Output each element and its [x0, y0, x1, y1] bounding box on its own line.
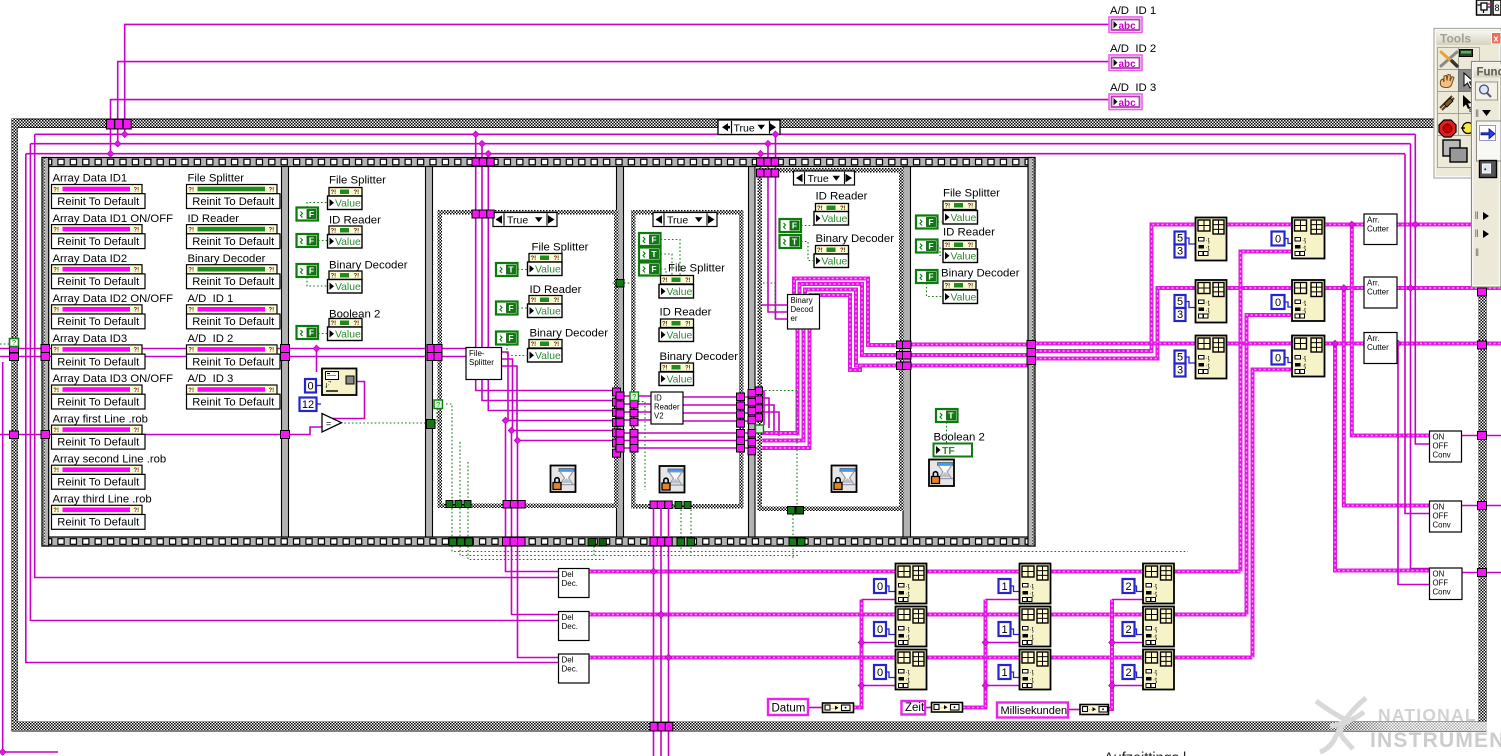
- svg-text:Array Data ID2 ON/OFF: Array Data ID2 ON/OFF: [53, 293, 174, 305]
- svg-text:?!: ?!: [53, 348, 59, 354]
- svg-text:?!: ?!: [554, 342, 560, 348]
- boolean constant T case3: [496, 263, 518, 276]
- Tools palette cells: [1438, 48, 1459, 70]
- svg-text:Cutter: Cutter: [1367, 288, 1389, 297]
- case structure 4 border: [631, 210, 744, 215]
- array build node col2 row2: [1020, 607, 1051, 647]
- NI eagle watermark: [1316, 698, 1366, 752]
- array build node col2 row1: [1020, 564, 1051, 604]
- svg-text:Value: Value: [951, 213, 977, 224]
- wire panel6 thick run 3: [904, 364, 1029, 368]
- wait hourglass case5: [832, 466, 857, 493]
- Zeit label: [902, 701, 926, 715]
- numeric constant 3 row3: [1175, 364, 1186, 377]
- wire case3-case4 crossing bundle: [621, 395, 652, 397]
- svg-text:Del: Del: [562, 570, 574, 579]
- green wire case3 interior drop: [446, 404, 452, 501]
- svg-text:?!: ?!: [53, 468, 59, 474]
- watermark fade over border: [0, 0, 1, 1]
- svg-text:Aufzeittings l: Aufzeittings l: [1104, 751, 1186, 756]
- svg-text:‖: ‖: [1475, 211, 1479, 222]
- svg-text:Value: Value: [535, 264, 561, 275]
- svg-text:INSTRUMENTS: INSTRUMENTS: [1370, 729, 1501, 752]
- svg-text:0: 0: [877, 667, 883, 679]
- svg-text:F: F: [309, 266, 314, 276]
- svg-text:A/D ID 3: A/D ID 3: [1110, 82, 1156, 94]
- wire H3 drop to ON OFF 2 second input: [1405, 154, 1430, 514]
- svg-text:3: 3: [1177, 246, 1183, 258]
- svg-text:·ƫ: ·ƫ: [1153, 626, 1157, 633]
- wire time node riser col2 (thick): [963, 600, 986, 708]
- svg-text:?!: ?!: [134, 308, 140, 314]
- wire riser bottom row1 to index1 (thick): [1241, 252, 1293, 572]
- boolean constant F 2 panel2: [297, 234, 319, 247]
- sequence left border tunnels: [41, 345, 50, 353]
- wire File-Splitter outputs to case3 tunnels: [502, 352, 613, 421]
- svg-text:?!: ?!: [134, 468, 140, 474]
- numeric constants bottom grid: [874, 579, 886, 593]
- svg-text:Reader: Reader: [654, 403, 680, 412]
- ID Reader V2 subVI: [651, 392, 683, 424]
- wire subset1 to index1 (thick): [1227, 223, 1293, 227]
- wire panel2 pair to panel3: [289, 348, 466, 350]
- svg-text:Binary Decoder: Binary Decoder: [530, 327, 609, 339]
- boolean constant T case5: [780, 235, 802, 248]
- svg-text:Reinit To Default: Reinit To Default: [57, 477, 140, 489]
- svg-text:NATIONAL: NATIONAL: [1378, 705, 1477, 725]
- svg-text:Array Data ID1: Array Data ID1: [53, 173, 128, 185]
- wire panel6 thick run 2: [904, 353, 1029, 357]
- boolean constant F panel6 a: [916, 216, 938, 229]
- svg-text:A/D ID 2: A/D ID 2: [1110, 43, 1156, 55]
- sequence panel divider 1: [282, 167, 289, 538]
- Arr Cutter subVI 3: [1364, 333, 1397, 364]
- wire case5 loop 4 (thick): [811, 295, 861, 370]
- svg-text:·ƫ: ·ƫ: [906, 626, 910, 633]
- svg-text:Array Data ID3 ON/OFF: Array Data ID3 ON/OFF: [53, 373, 174, 385]
- green dotted row 3 below sequence: [468, 546, 604, 560]
- Tools close button: [1492, 33, 1501, 45]
- case4 right lower tunnels: [737, 430, 745, 438]
- svg-text:Reinit To Default: Reinit To Default: [192, 276, 275, 288]
- numeric constant 3 row1: [1175, 245, 1186, 258]
- wire panel2 junction drop to build node: [316, 349, 318, 373]
- wait hourglass panel6: [929, 460, 954, 487]
- svg-text:Reinit To Default: Reinit To Default: [57, 396, 140, 408]
- wire case3 drops to Del Dec row1: [506, 421, 560, 572]
- Functions palette title: [1474, 65, 1501, 78]
- svg-text:?!: ?!: [53, 508, 59, 514]
- svg-text:Array second Line .rob: Array second Line .rob: [53, 453, 167, 465]
- svg-text:·ƫ: ·ƫ: [1302, 300, 1306, 307]
- wire into loop y356: [0, 356, 289, 358]
- numeric constant 3 row2: [1175, 308, 1186, 321]
- case5 right tunnels: [897, 341, 905, 349]
- svg-text:F: F: [651, 235, 656, 245]
- svg-text:Arr.: Arr.: [1367, 334, 1379, 343]
- wire into loop y434: [0, 434, 282, 436]
- boolean constant F panel6 c: [916, 270, 938, 283]
- svg-text:Binary Decoder: Binary Decoder: [329, 260, 408, 272]
- svg-text:Value: Value: [951, 292, 977, 303]
- wire build-node loop to equals: [322, 382, 365, 419]
- wire tunnel stub 2: [117, 126, 119, 144]
- A/D ID 2 string indicator: [1109, 55, 1142, 71]
- wire row3 drop to ON OFF 3 second input: [1398, 344, 1430, 585]
- svg-text:?!: ?!: [53, 308, 59, 314]
- svg-text:Value: Value: [535, 351, 561, 362]
- svg-text:‖: ‖: [1475, 229, 1479, 240]
- green wire equals output: [341, 422, 427, 424]
- wire left drop to Del Dec 1: [35, 134, 559, 577]
- Millisekunden label: [997, 703, 1068, 718]
- svg-text:?!: ?!: [945, 284, 951, 290]
- wire H1 drop to ON OFF 1 second input: [1415, 134, 1429, 444]
- svg-text:0: 0: [1275, 234, 1281, 246]
- flat sequence frame left border: [42, 158, 49, 547]
- wire Arr Cutter 3 out: [1397, 342, 1501, 346]
- hand tool icon: [1440, 75, 1454, 88]
- svg-text:Value: Value: [822, 256, 848, 267]
- sequence panel divider 4: [749, 167, 756, 538]
- svg-text:·ƫ: ·ƫ: [906, 669, 910, 676]
- svg-text:·ƫ: ·ƫ: [1153, 669, 1157, 676]
- tunnel outer left y434: [10, 431, 19, 439]
- array build node col2 row3: [1020, 650, 1051, 690]
- wire panel5 left tunnel stubs: [758, 391, 765, 425]
- selected cell highlight: [1459, 70, 1480, 92]
- svg-text:·ƫ: ·ƫ: [1153, 591, 1157, 598]
- wire index3 to Arr Cutter 3 (thick): [1325, 342, 1365, 346]
- ON OFF Conv subVI 2: [1430, 501, 1462, 532]
- svg-text:Reinit To Default: Reinit To Default: [192, 316, 275, 328]
- wire Del Dec row2 output (thick): [589, 613, 1247, 617]
- wire ON OFF 3 output: [1462, 572, 1501, 574]
- svg-text:Binary Decoder: Binary Decoder: [660, 351, 739, 363]
- wire panel6 thick run 1: [904, 343, 1029, 347]
- svg-text:Reinit To Default: Reinit To Default: [192, 356, 275, 368]
- case structure 5 border: [758, 168, 904, 173]
- svg-text:A/D ID 2: A/D ID 2: [188, 333, 234, 345]
- svg-text:Reinit To Default: Reinit To Default: [57, 437, 140, 449]
- svg-text:Value: Value: [667, 374, 693, 385]
- svg-text:Array third Line .rob: Array third Line .rob: [53, 494, 152, 506]
- green wire into loop: [0, 343, 10, 345]
- numeric constant 0 panel2: [305, 379, 316, 393]
- wire date node riser col1 (thick): [854, 600, 862, 708]
- wire seq-out row2 riser to Array Subset 2 (thick): [1035, 288, 1196, 359]
- d4 tunnels: [748, 390, 756, 398]
- svg-text:5: 5: [1177, 352, 1183, 364]
- svg-text:Conv: Conv: [1433, 521, 1451, 530]
- svg-text:3: 3: [1177, 365, 1183, 377]
- green equals comparison feed: [763, 283, 775, 320]
- svg-text:?!: ?!: [269, 308, 275, 314]
- numeric constant 5 row2: [1175, 295, 1186, 308]
- wire case3 bundle drop 2: [482, 144, 613, 401]
- svg-text:·ƫ: ·ƫ: [1030, 677, 1034, 684]
- wire col2 stubs: [986, 599, 1020, 601]
- svg-text:T: T: [948, 411, 954, 421]
- wire exit drop 1 through bottom border: [653, 546, 655, 756]
- svg-text:Value: Value: [822, 214, 848, 225]
- green risers mid: [593, 546, 595, 556]
- svg-text:?!: ?!: [269, 348, 275, 354]
- svg-text:Value: Value: [335, 282, 361, 293]
- sequence bottom band tunnels (panel4): [650, 538, 657, 546]
- boolean constant F case3 c: [496, 332, 518, 345]
- svg-text:?!: ?!: [662, 278, 668, 284]
- A/D ID 3 string indicator: [1109, 94, 1142, 110]
- wire case5 loop 2 (thick): [800, 284, 898, 355]
- svg-text:Binary Decoder: Binary Decoder: [188, 253, 266, 265]
- array build node col3 row2: [1143, 607, 1174, 647]
- flat sequence frame top band: [42, 158, 1035, 167]
- svg-text:Zeit: Zeit: [905, 702, 925, 714]
- case4 selector terminal: [630, 392, 639, 401]
- wire riser bottom row3 to index3 (thick): [1253, 370, 1293, 658]
- svg-text:1: 1: [1001, 667, 1007, 679]
- sequence bottom band tunnels (panel3): [449, 538, 457, 546]
- svg-text:A/D ID 1: A/D ID 1: [1110, 5, 1156, 17]
- case structure 3 border: [438, 210, 619, 215]
- case structure 3 selector: [493, 213, 557, 227]
- svg-text:Binary: Binary: [791, 296, 813, 305]
- svg-text:abc: abc: [1119, 21, 1137, 32]
- wrench and screwdriver tool icon: [1441, 52, 1457, 66]
- green dotted row 2 below sequence: [460, 546, 800, 556]
- svg-text:ID: ID: [654, 394, 662, 403]
- date conversion node: [823, 703, 854, 713]
- wire into loop y348: [0, 348, 289, 350]
- d3 green tunnel: [616, 280, 624, 288]
- svg-text:?!: ?!: [188, 388, 194, 394]
- wire panel2 equals lower input: [289, 427, 322, 435]
- svg-text:2: 2: [1125, 581, 1131, 593]
- svg-text:ID Reader: ID Reader: [329, 215, 381, 227]
- svg-text:True: True: [734, 122, 755, 134]
- Array Subset node 2: [1196, 280, 1227, 323]
- wire ID Reader V2 outputs to panel5: [683, 396, 758, 398]
- File-Splitter subVI: [466, 348, 502, 380]
- svg-text:File Splitter: File Splitter: [329, 175, 386, 187]
- svg-text:Reinit To Default: Reinit To Default: [57, 236, 140, 248]
- svg-text:Reinit To Default: Reinit To Default: [192, 396, 275, 408]
- case structure 4 selector: [653, 213, 717, 227]
- boolean constant F 3 panel2: [297, 264, 319, 277]
- svg-text:Array Data ID1 ON/OFF: Array Data ID1 ON/OFF: [53, 213, 174, 225]
- Tools palette window: [1434, 29, 1501, 179]
- svg-text:Decod: Decod: [791, 305, 814, 314]
- color copy tool icon: [1443, 140, 1460, 156]
- svg-text:A/D ID 3: A/D ID 3: [188, 373, 234, 385]
- sequence right border tunnels: [1027, 341, 1036, 349]
- wire case5 loop 1 (thick): [794, 279, 898, 346]
- Del Dec subVI 3: [559, 654, 590, 683]
- svg-text:V2: V2: [654, 412, 664, 421]
- svg-text:abc: abc: [1119, 59, 1137, 70]
- svg-text:F: F: [651, 264, 656, 274]
- svg-text:T: T: [508, 265, 514, 275]
- wire Arr Cutter 1 out: [1397, 223, 1474, 227]
- case3 selector terminal: [434, 400, 443, 409]
- divider2 green tunnel: [427, 420, 436, 429]
- svg-text:·ƫ: ·ƫ: [1030, 591, 1034, 598]
- svg-text:Dec.: Dec.: [562, 622, 578, 631]
- svg-text:·ƫ: ·ƫ: [1206, 300, 1210, 307]
- array build node col3 row1: [1143, 564, 1174, 604]
- case5 bottom green tunnel: [788, 507, 796, 515]
- svg-text:Value: Value: [951, 251, 977, 262]
- svg-text:Binary Decoder: Binary Decoder: [816, 233, 895, 245]
- wire case3 drops to Del Dec row2: [512, 431, 560, 615]
- svg-text:Reinit To Default: Reinit To Default: [192, 236, 275, 248]
- wire Arr Cutter 2 out: [1397, 286, 1501, 290]
- case3 bottom magenta tunnels: [503, 501, 510, 509]
- svg-text:ID Reader: ID Reader: [816, 191, 868, 203]
- milliseconds conversion node: [1080, 705, 1109, 715]
- svg-text:F: F: [928, 241, 933, 251]
- svg-text:·ƫ: ·ƫ: [1206, 307, 1210, 314]
- boolean tunnel outer left: [10, 339, 19, 347]
- svg-text:?!: ?!: [685, 322, 691, 328]
- wire subset2 to index2 (thick): [1227, 286, 1293, 290]
- sequence top band tunnels panel5: [757, 158, 764, 166]
- d5 tunnels: [903, 341, 912, 349]
- svg-text:?!: ?!: [968, 284, 974, 290]
- svg-text:Func: Func: [1477, 67, 1501, 79]
- svg-text:?!: ?!: [188, 348, 194, 354]
- svg-text:ID Reader: ID Reader: [188, 213, 240, 225]
- svg-text:0: 0: [1275, 353, 1281, 365]
- svg-text:Arr.: Arr.: [1367, 216, 1379, 225]
- svg-text:A/D ID 1: A/D ID 1: [188, 293, 234, 305]
- time conversion node: [932, 703, 963, 713]
- Array Subset node 3: [1196, 336, 1227, 379]
- wire Binary Decoder subVI bottom drops (thick): [758, 329, 798, 433]
- green wire case3 bottom to band: [451, 508, 453, 538]
- wait hourglass case3: [551, 466, 576, 493]
- svg-text:Del: Del: [562, 613, 574, 622]
- svg-text:ON: ON: [1433, 570, 1445, 579]
- svg-text:·ƫ: ·ƫ: [1030, 626, 1034, 633]
- wire seq-out row3 to Array Subset 3 (thick): [1035, 342, 1196, 346]
- edit text cursor icon: [1463, 95, 1472, 109]
- svg-text:Arr.: Arr.: [1367, 279, 1379, 288]
- case5 top tunnels: [757, 169, 764, 177]
- svg-text:·ƫ: ·ƫ: [1302, 307, 1306, 314]
- toolbar icon fragment 1: [1477, 0, 1492, 15]
- case structure outer border bottom: [12, 722, 1486, 731]
- sequence panel divider 3: [617, 167, 624, 538]
- Index Array node 1: [1292, 218, 1325, 259]
- svg-text:Reinit To Default: Reinit To Default: [57, 276, 140, 288]
- flat sequence frame right border: [1028, 158, 1035, 547]
- sequence bottom band tunnels panel5: [789, 538, 797, 546]
- boolean constant F 4 panel2: [297, 326, 319, 339]
- svg-text:Datum: Datum: [772, 703, 806, 715]
- svg-text:·ƫ: ·ƫ: [1302, 245, 1306, 252]
- wire ON OFF 1 output: [1462, 435, 1501, 437]
- outer right border tunnels: [1478, 288, 1487, 296]
- svg-text:?!: ?!: [134, 227, 140, 233]
- svg-text:··: ··: [940, 706, 944, 712]
- svg-text:ID Reader: ID Reader: [943, 227, 995, 239]
- svg-text:?!: ?!: [269, 187, 275, 193]
- svg-text:12: 12: [302, 399, 314, 411]
- divider1 tunnels: [281, 345, 290, 353]
- svg-text:·ƫ: ·ƫ: [1153, 634, 1157, 641]
- svg-text:?!: ?!: [134, 388, 140, 394]
- A/D ID 1 string indicator: [1109, 17, 1142, 33]
- svg-text:·ƫ: ·ƫ: [1206, 237, 1210, 244]
- wire case3 bundle drop 3: [488, 154, 612, 411]
- numeric constant 0 mid row3: [1272, 351, 1285, 365]
- svg-text:Array first Line .rob: Array first Line .rob: [53, 413, 148, 425]
- case3 right tunnel column: [613, 388, 621, 396]
- svg-text:2: 2: [1125, 667, 1131, 679]
- svg-text:=: =: [326, 419, 331, 429]
- ON OFF Conv subVI 3: [1430, 568, 1463, 600]
- boolean constant T panel6: [936, 409, 958, 422]
- divider2 tunnels: [427, 345, 435, 353]
- Functions subpalette icon blue arrow: [1477, 121, 1501, 161]
- svg-text:·ƫ: ·ƫ: [906, 583, 910, 590]
- svg-text:Reinit To Default: Reinit To Default: [57, 356, 140, 368]
- svg-text:·ƫ: ·ƫ: [1206, 355, 1210, 362]
- svg-text:·ƫ: ·ƫ: [1206, 245, 1210, 252]
- svg-text:File Splitter: File Splitter: [532, 242, 589, 254]
- wire ms node riser col3 (thick): [1109, 600, 1113, 710]
- Functions search button: [1476, 82, 1498, 100]
- tunnels on outer top border: [106, 120, 114, 130]
- numeric constant 0 mid row1: [1272, 232, 1285, 246]
- svg-text:?!: ?!: [53, 187, 59, 193]
- Arr Cutter subVI 2: [1364, 277, 1397, 308]
- wire case3 drops to Del Dec row3: [518, 441, 560, 658]
- svg-text:F: F: [309, 209, 314, 219]
- wire tunnel stub 3: [124, 126, 126, 134]
- array build node col1 row3: [896, 650, 927, 690]
- svg-text:Value: Value: [667, 330, 693, 341]
- wiring tool icon: [1440, 96, 1454, 110]
- wire case5 loop 3 (thick): [805, 290, 898, 366]
- case4 wires down to band: [653, 508, 655, 538]
- svg-text:?: ?: [436, 402, 440, 409]
- svg-text:?!: ?!: [269, 388, 275, 394]
- wire top horizontal run H2: [30, 143, 1410, 145]
- case structure 5 selector: [794, 171, 855, 185]
- wire Del Dec row3 output (thick): [589, 656, 1253, 660]
- svg-text:?!: ?!: [269, 268, 275, 274]
- wire Del Dec row1 output (thick): [589, 570, 1241, 574]
- wire tunnel stub 1: [110, 126, 112, 154]
- green wire panel5 selector dotted: [765, 391, 797, 507]
- wire case5 top feed 2: [768, 144, 788, 312]
- numeric constant 12 panel2: [300, 398, 317, 412]
- wire H2 drop stub: [1411, 144, 1432, 569]
- svg-text:F: F: [792, 221, 797, 231]
- svg-text:?!: ?!: [53, 388, 59, 394]
- wire left drop to Del Dec 2: [30, 144, 559, 621]
- Index Array node 3: [1292, 336, 1325, 377]
- svg-text:?!: ?!: [53, 227, 59, 233]
- d3 tunnels: [616, 392, 624, 400]
- ON OFF Conv subVI 1: [1430, 431, 1462, 462]
- outer bottom border tunnels: [650, 723, 657, 732]
- svg-text:0: 0: [307, 381, 313, 393]
- wire top horizontal run H3: [26, 153, 1405, 155]
